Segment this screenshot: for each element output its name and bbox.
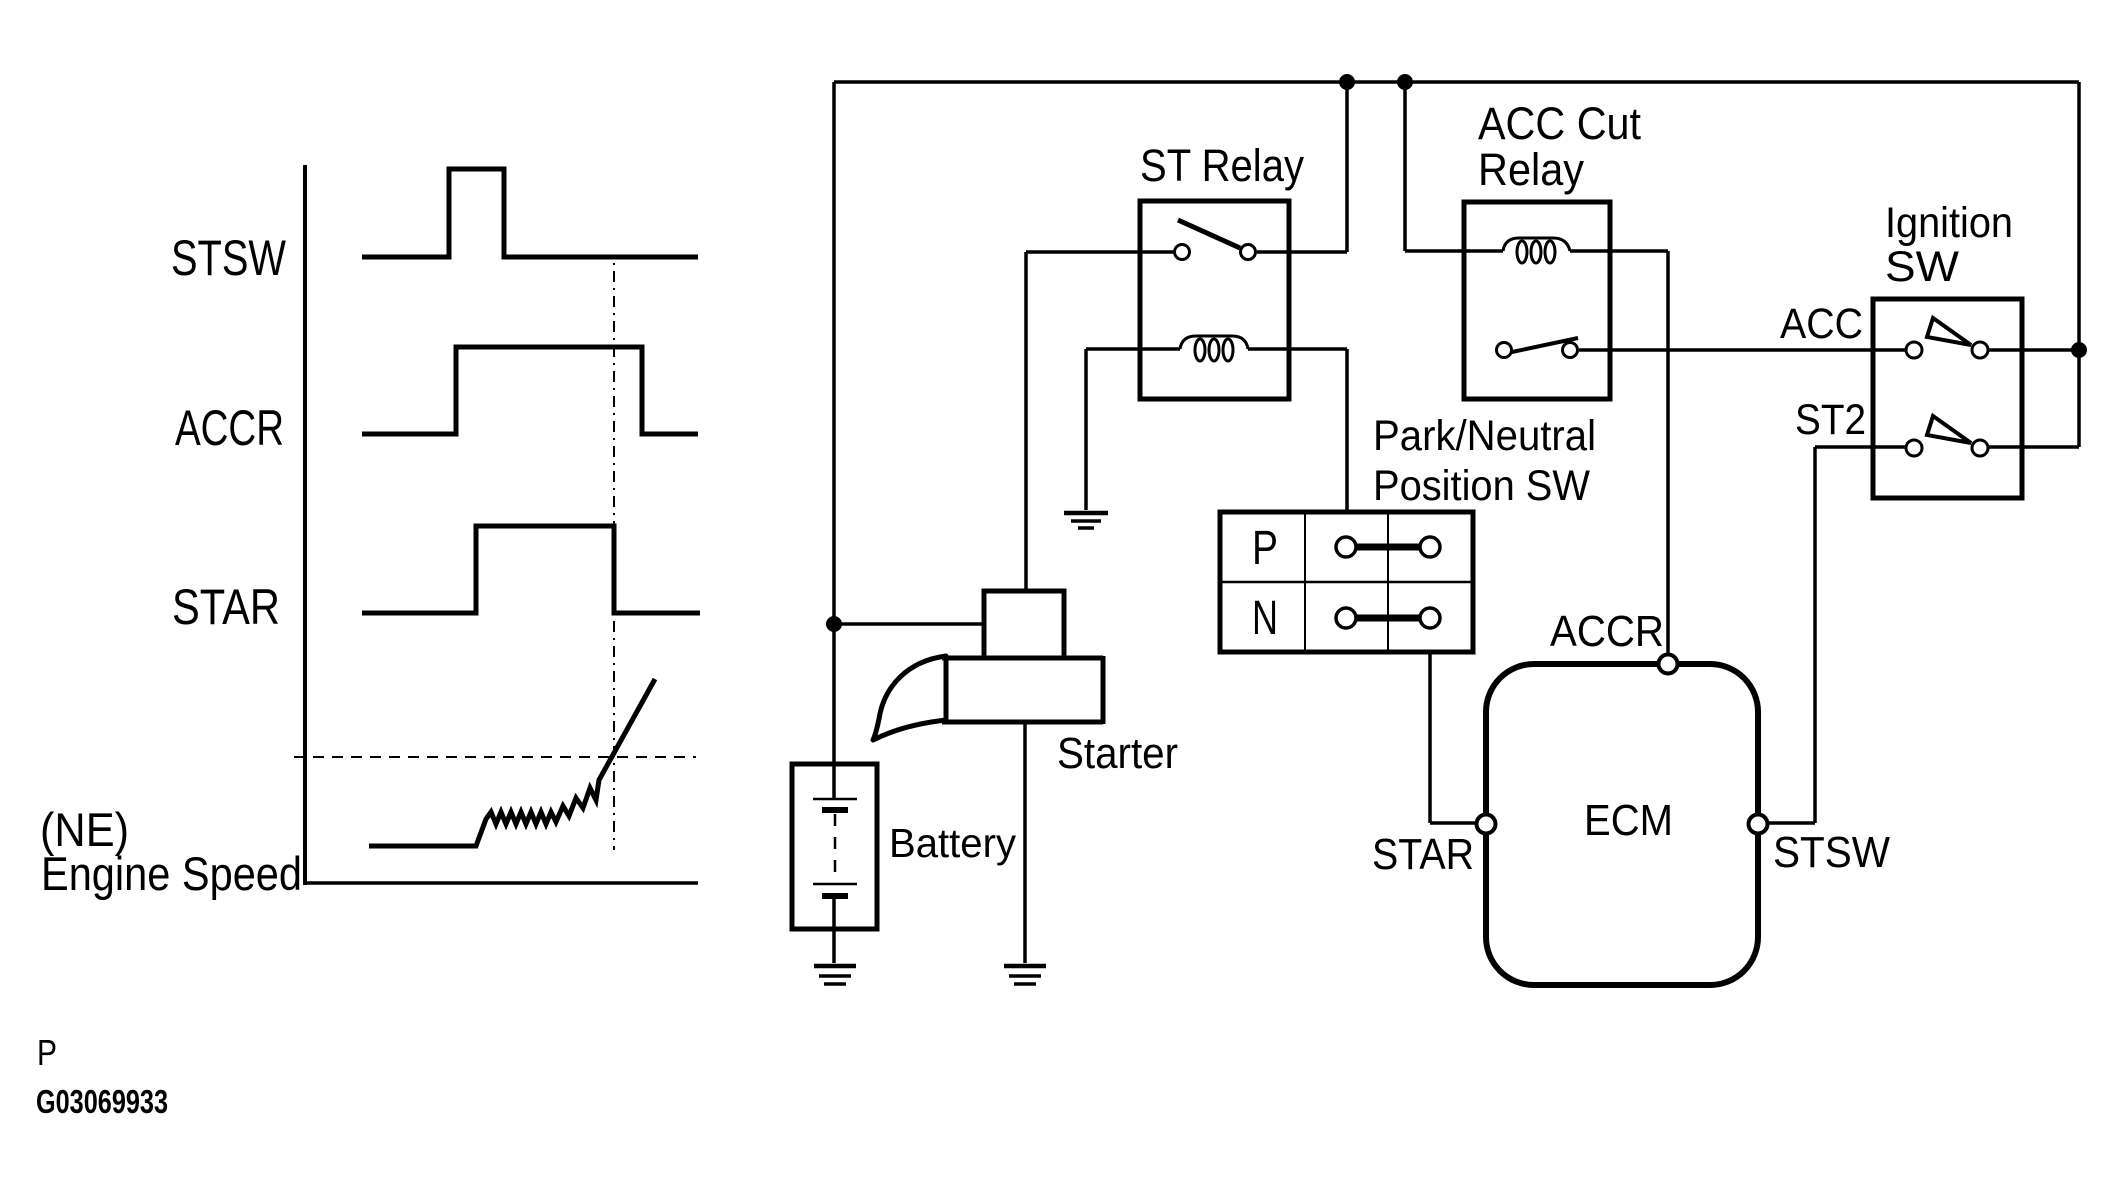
svg-text:G03069933: G03069933 [36,1083,168,1120]
label ECM [1584,796,1673,845]
NE engine speed curve [369,679,655,846]
ignition ACC contact circles [1906,342,1988,358]
svg-text:Park/Neutral: Park/Neutral [1373,412,1596,460]
ECM box [1486,664,1758,985]
wire: ST relay contact to top bus [1257,82,1347,252]
ECM terminal STAR [1477,815,1496,834]
label (NE) Engine Speed [40,803,302,900]
svg-text:ACC: ACC [1780,300,1863,348]
ECM terminal STSW [1749,815,1768,834]
relay ST Relay box [1140,201,1289,399]
svg-text:P: P [1252,522,1278,575]
ACC cut relay contact blade [1512,338,1578,352]
wire: +B top bus [834,80,2079,84]
label STSW (ECM) [1773,828,1890,877]
svg-text:Starter: Starter [1057,729,1178,778]
svg-text:Battery: Battery [889,820,1016,866]
svg-text:STAR: STAR [172,579,280,635]
wire: ignition ACC to right bus [1988,82,2079,447]
svg-text:STSW: STSW [171,230,287,286]
battery cell plates [813,799,857,896]
wire: battery negative to ground [832,896,836,963]
junction battery/starter [826,616,842,632]
ST relay contact circles [1175,245,1256,260]
wire: ST relay contact to solenoid [1026,252,1173,591]
label Ignition SW [1885,199,2013,291]
timing diagram vertical axis [303,165,307,885]
timing diagram bottom axis [305,881,698,885]
svg-text:ACC Cut: ACC Cut [1478,98,1641,149]
label N row [1252,592,1278,645]
svg-text:N: N [1252,592,1278,645]
label Battery [889,820,1016,866]
ECM terminal ACCR [1659,655,1678,674]
junction right bus / ACC [2071,342,2087,358]
ground (battery) [814,966,856,984]
wire: ACC cut relay contact to ignition SW ACC [1579,348,1906,352]
ST relay coil [1180,336,1248,361]
svg-text:ST2: ST2 [1795,396,1866,444]
wire: ST relay coil left to ground [1086,349,1180,510]
svg-text:ST Relay: ST Relay [1140,140,1304,191]
wire: top bus to ACC cut relay coil [1405,82,1503,251]
ignition ST2 contact circles [1906,440,1988,456]
label G03069933 [36,1083,168,1120]
label STAR (timing) [172,579,280,635]
wire: battery to starter solenoid [834,622,984,626]
STAR waveform [362,526,700,613]
svg-text:Ignition: Ignition [1885,199,2013,247]
dashed threshold horizontal line [294,756,696,758]
N row contacts [1336,608,1440,628]
park/neutral position switch box [1220,512,1473,652]
label P row [1252,522,1278,575]
wire: ignition ST2 to ECM STSW [1768,447,1906,823]
svg-text:ACCR: ACCR [175,400,284,456]
ACC cut relay contact circles [1497,343,1578,358]
ACCR waveform [362,347,698,434]
svg-text:P: P [37,1032,57,1073]
label Park/Neutral Position SW [1373,412,1596,510]
wire: battery feed vertical [832,82,836,799]
junction top bus / ST relay [1339,74,1355,90]
ground (ST relay coil) [1064,513,1108,528]
wire: ST relay coil right to Park/Neutral SW [1248,349,1347,512]
svg-text:STSW: STSW [1773,828,1890,877]
label STSW (timing) [171,230,287,286]
starter body [942,656,1103,724]
dash-dot cursor vertical line [613,263,615,850]
label STAR (ECM) [1372,830,1474,879]
svg-text:ACCR: ACCR [1550,607,1664,656]
wire: starter body to ground [1023,722,1027,963]
P row contacts [1336,537,1440,557]
relay ACC Cut Relay box [1464,202,1610,399]
starter solenoid [984,591,1064,658]
label ST Relay [1140,140,1304,191]
starter horn [873,656,946,740]
ACC cut relay coil [1503,238,1570,263]
svg-text:Position SW: Position SW [1373,462,1590,510]
ignition switch box [1873,299,2022,498]
ground (starter) [1004,966,1046,984]
label ACC Cut Relay [1478,98,1641,195]
label Starter [1057,729,1178,778]
svg-text:ECM: ECM [1584,796,1673,845]
label ACCR (timing) [175,400,284,456]
wire: ACC cut relay coil to ECM ACCR [1570,251,1668,654]
svg-text:STAR: STAR [1372,830,1474,879]
label ACCR (ECM) [1550,607,1664,656]
svg-text:Relay: Relay [1478,144,1584,195]
svg-text:Engine Speed: Engine Speed [41,847,302,900]
wire: Park/Neutral SW to ECM STAR [1430,652,1477,823]
label P (page marker) [37,1032,57,1073]
ST relay contact blade [1178,220,1240,248]
junction top bus / ACC cut relay [1397,74,1413,90]
STSW waveform [362,169,698,257]
label ST2 terminal [1795,396,1866,444]
label ACC terminal [1780,300,1863,348]
svg-text:SW: SW [1885,243,1959,291]
battery box [792,764,877,929]
ignition ACC wiper blade [1927,318,1971,345]
ignition ST2 wiper blade [1927,416,1971,443]
